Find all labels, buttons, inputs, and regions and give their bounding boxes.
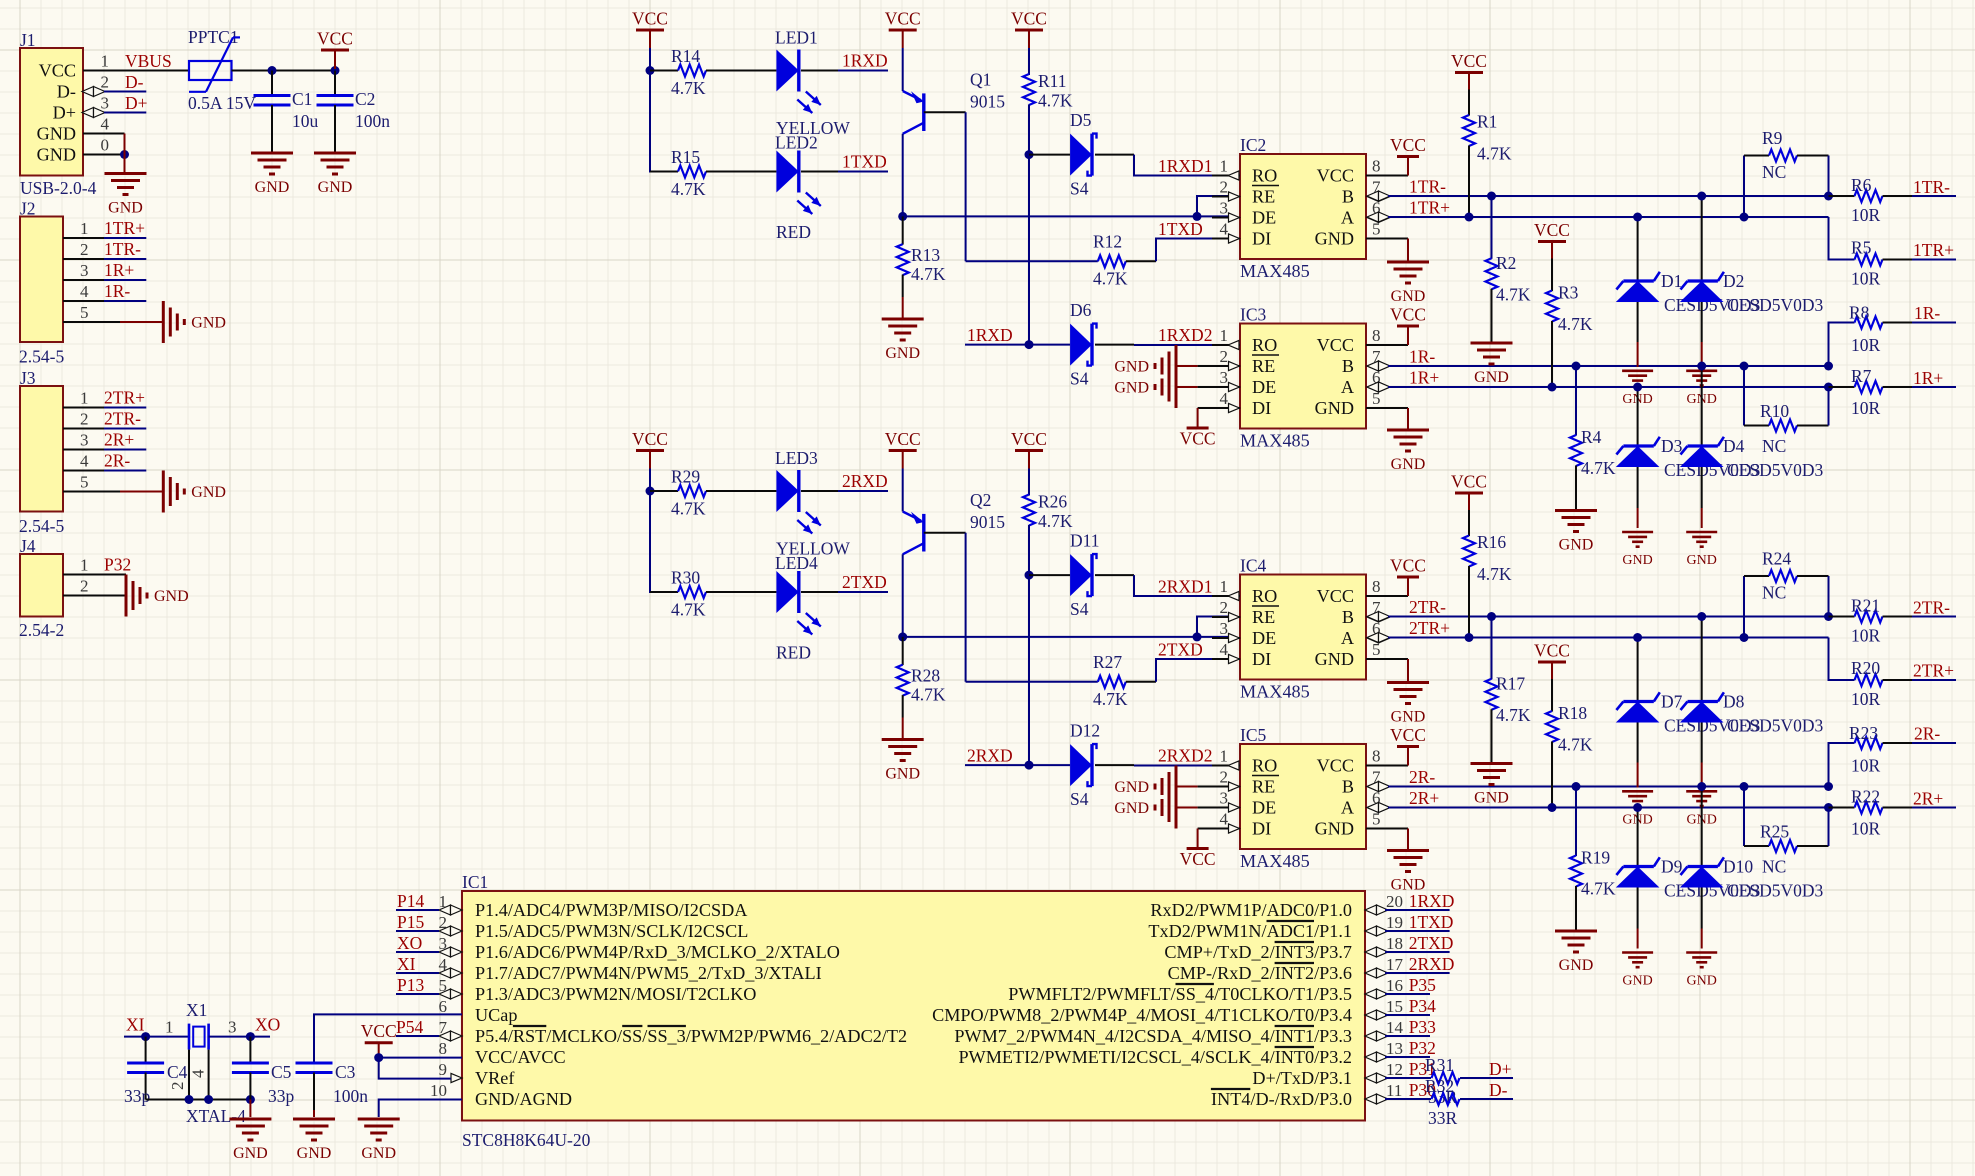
resistor R32 (33R) [1385,1076,1513,1128]
svg-text:GND: GND [191,315,226,332]
svg-text:A: A [1341,628,1354,648]
svg-text:IC2: IC2 [1240,135,1266,155]
svg-text:D12: D12 [1070,721,1100,741]
ground (D3) [1622,532,1653,568]
svg-text:R2: R2 [1496,253,1516,273]
wire J1 gnd [124,134,126,174]
wire pin P33 [1385,1035,1430,1037]
svg-text:R15: R15 [671,147,700,167]
svg-text:2: 2 [1220,598,1229,617]
svg-text:RED: RED [776,643,811,663]
svg-text:2: 2 [1220,178,1229,197]
svg-text:R16: R16 [1477,532,1506,552]
svg-text:R14: R14 [671,46,700,66]
svg-text:XI: XI [126,1015,145,1035]
svg-text:2R-: 2R- [104,451,130,471]
junction R2 [1487,192,1496,201]
TVS diode D9 [1616,808,1761,949]
svg-text:R27: R27 [1093,652,1122,672]
wire 1TR+ bus [1367,212,1829,222]
svg-text:GND: GND [154,588,189,605]
wire base [924,112,966,261]
svg-text:A: A [1341,377,1354,397]
svg-text:GND: GND [1559,537,1594,554]
TVS diode D4 [1680,366,1824,528]
svg-text:RO: RO [1252,335,1277,355]
svg-text:GND: GND [297,1145,332,1162]
svg-text:17: 17 [1386,955,1404,974]
junction R8 [1824,782,1833,791]
junction R8 [1824,362,1833,371]
svg-text:R29: R29 [671,467,700,487]
TVS diode D7 [1616,638,1761,788]
svg-text:VCC: VCC [1390,725,1426,745]
svg-text:GND: GND [108,200,143,217]
svg-text:1R+: 1R+ [1409,368,1439,388]
junction C5 [246,1032,255,1041]
svg-text:RED: RED [776,222,811,242]
svg-text:1RXD: 1RXD [842,51,888,71]
svg-text:10R: 10R [1851,335,1881,355]
diode D11 (S4) [1029,531,1100,620]
wire pin P34 [1385,1014,1430,1016]
svg-text:NC: NC [1762,162,1786,182]
junction R3 [1548,383,1557,392]
wire 2RXD [801,490,888,492]
power VCC (IC3 pin8) [1366,305,1426,346]
svg-text:VCC: VCC [1534,220,1570,240]
svg-text:GND: GND [1114,380,1149,397]
TVS diode D1 [1616,217,1761,367]
svg-text:VCC: VCC [317,29,353,49]
wire pin 1TXD [1385,930,1450,932]
svg-text:LED1: LED1 [775,28,818,48]
power VCC (mcu) [361,1021,397,1057]
svg-text:DE: DE [1252,208,1276,228]
svg-text:MAX485: MAX485 [1240,431,1310,451]
svg-text:2: 2 [1220,347,1229,366]
svg-text:GND: GND [1114,779,1149,796]
junction R1 [1465,213,1474,222]
svg-text:D9: D9 [1661,857,1683,877]
power VCC (transistor) [885,9,921,49]
svg-text:MAX485: MAX485 [1240,261,1310,281]
svg-text:4.7K: 4.7K [1558,735,1593,755]
wire VBUS [105,70,189,72]
svg-text:2TR+: 2TR+ [1409,618,1450,638]
svg-text:GND: GND [37,124,76,144]
wire vcc to resistors [650,48,678,172]
svg-text:XTAL-4: XTAL-4 [186,1106,246,1126]
svg-text:10R: 10R [1851,819,1881,839]
svg-text:R31: R31 [1425,1055,1454,1075]
svg-text:1TXD: 1TXD [1158,219,1203,239]
wire vcc to emitter [902,48,904,91]
svg-text:2: 2 [80,240,89,259]
ground (IC5 DE) [1114,787,1212,829]
svg-text:NC: NC [1762,436,1786,456]
resistor R7 (10R) [1829,366,1957,418]
svg-text:11: 11 [1386,1081,1402,1100]
svg-text:1R-: 1R- [104,281,130,301]
svg-text:2: 2 [80,410,89,429]
resistor R17 [1486,617,1531,764]
svg-text:RE: RE [1252,187,1275,207]
junction R9 left [1740,633,1749,642]
svg-text:1: 1 [1220,747,1229,766]
wire pullup down [1028,525,1030,765]
power VCC (USB) [317,29,353,70]
resistor R23 (10R) [1829,723,1957,787]
svg-text:1RXD: 1RXD [1409,891,1455,911]
resistor R29 [650,467,776,519]
svg-text:33p: 33p [124,1086,151,1106]
svg-text:R28: R28 [911,666,940,686]
resistor R26 [1023,492,1073,532]
resistor R18 [1546,679,1593,808]
wire 1R- bus [1367,361,1829,371]
junction at J1 GND [120,150,129,159]
resistor R30 [650,568,776,620]
svg-text:R10: R10 [1760,401,1789,421]
wire 2RXD mid [965,764,1070,766]
svg-text:GND: GND [885,766,920,783]
svg-text:2: 2 [168,1082,187,1091]
resistor R24 (NC) [1744,549,1829,638]
svg-text:VCC: VCC [1390,556,1426,576]
junction D5 [1025,150,1034,159]
ground (R4) [1555,931,1597,974]
svg-text:P1.4/ADC4/PWM3P/MISO/I2CSDA: P1.4/ADC4/PWM3P/MISO/I2CSDA [475,900,747,920]
svg-text:15: 15 [1386,997,1403,1016]
svg-text:D1: D1 [1661,271,1682,291]
svg-text:1: 1 [80,219,89,238]
svg-text:PWMETI2/PWMETI/I2CSCL_4/SCLK_4: PWMETI2/PWMETI/I2CSCL_4/SCLK_4/INT0/P3.2 [958,1047,1352,1067]
svg-text:LED2: LED2 [775,133,818,153]
svg-text:4.7K: 4.7K [1581,879,1616,899]
svg-text:C3: C3 [335,1062,356,1082]
svg-text:R5: R5 [1851,238,1872,258]
wire XO [209,1036,270,1038]
svg-text:4.7K: 4.7K [911,685,946,705]
svg-text:20: 20 [1386,892,1403,911]
resistor R31 (33R) [1385,1055,1513,1107]
svg-text:VCC: VCC [632,429,668,449]
svg-text:0.5A 15V: 0.5A 15V [188,93,256,113]
junction R[R29] [646,487,655,496]
svg-text:VRef: VRef [475,1068,515,1088]
resistor R2 [1486,196,1531,343]
svg-text:R22: R22 [1851,787,1880,807]
resistor R5 (10R) [1829,217,1957,289]
wire 2TR+ bus [1367,633,1829,643]
svg-text:GND: GND [191,484,226,501]
svg-text:CESD5V0D3: CESD5V0D3 [1727,295,1824,315]
junction R4 [1572,782,1581,791]
svg-text:GND: GND [1391,288,1426,305]
resistor R4 [1570,366,1616,511]
svg-text:GND: GND [1474,369,1509,386]
junction D5 [1025,571,1034,580]
resistor R10 (NC) [1744,366,1829,456]
resistor R22 (10R) [1829,787,1957,839]
resistor R12 [966,232,1156,289]
svg-text:PPTC1: PPTC1 [188,27,239,47]
svg-text:R32: R32 [1425,1076,1454,1096]
svg-text:P32: P32 [104,555,131,575]
power VCC (IC5 DI) [1180,829,1216,870]
wire 2R+ bus [1367,803,1829,813]
resistor R19 [1570,787,1616,932]
wire RE/DE net [903,215,1229,217]
svg-text:MAX485: MAX485 [1240,851,1310,871]
svg-text:R20: R20 [1851,658,1880,678]
junction R10 right [1824,803,1833,812]
svg-text:GND: GND [1114,800,1149,817]
svg-text:D4: D4 [1723,436,1745,456]
svg-text:10R: 10R [1851,626,1881,646]
svg-text:2TXD: 2TXD [1158,640,1203,660]
svg-text:GND/AGND: GND/AGND [475,1089,572,1109]
svg-text:VCC: VCC [1011,429,1047,449]
svg-text:4.7K: 4.7K [1093,689,1128,709]
wire 1R+ bus [1367,382,1829,392]
junction D4 [1697,362,1706,371]
svg-text:1: 1 [101,52,110,71]
svg-text:2TR-: 2TR- [1913,598,1950,618]
svg-text:3: 3 [1220,789,1229,808]
MAX485 IC2 [1212,135,1408,281]
wire rail to ground [249,1100,251,1118]
svg-text:P33: P33 [1409,1017,1436,1037]
wire pin P13 [396,993,439,995]
svg-text:CMP-/RxD_2/INT2/P3.6: CMP-/RxD_2/INT2/P3.6 [1168,963,1352,983]
MAX485 IC4 [1212,556,1408,702]
svg-text:1R-: 1R- [1914,303,1940,323]
svg-text:D+: D+ [1489,1059,1512,1079]
svg-text:2R+: 2R+ [1409,788,1439,808]
svg-text:DE: DE [1252,798,1276,818]
capacitor C1 [254,71,319,154]
resistor R1 [1463,90,1512,218]
power VCC (IC3 DI) [1180,408,1216,449]
svg-text:VCC: VCC [885,429,921,449]
svg-text:4: 4 [1220,810,1229,829]
resistor R3 [1546,259,1593,388]
wire pullup down [1028,105,1030,345]
svg-text:S4: S4 [1070,789,1089,809]
junction rail C5 [246,1095,255,1104]
svg-text:GND: GND [1474,790,1509,807]
junction R9 left [1740,213,1749,222]
resistor R6 (10R) [1829,175,1957,225]
diode D6 (S4) [1070,300,1097,389]
svg-text:1TR-: 1TR- [104,239,141,259]
svg-text:A: A [1341,208,1354,228]
ground (R2) [1471,343,1513,386]
svg-text:1RXD1: 1RXD1 [1158,156,1212,176]
svg-text:GND: GND [255,179,290,196]
svg-text:P34: P34 [1409,996,1436,1016]
svg-text:C5: C5 [271,1062,292,1082]
transistor Q1 (9015) [903,70,1006,134]
svg-text:GND: GND [318,179,353,196]
wire pin P35 [1385,993,1430,995]
svg-text:S4: S4 [1070,369,1089,389]
svg-text:1R+: 1R+ [104,260,134,280]
svg-text:1: 1 [80,556,89,575]
ground (mcu) [358,1119,400,1162]
svg-text:3: 3 [1220,619,1229,638]
svg-text:Q2: Q2 [970,490,991,510]
junction collector [898,632,907,641]
svg-text:DI: DI [1252,819,1271,839]
svg-text:GND: GND [1315,819,1354,839]
svg-text:2RXD: 2RXD [967,746,1013,766]
svg-text:2RXD: 2RXD [842,471,888,491]
svg-text:R30: R30 [671,568,700,588]
svg-text:GND: GND [1622,974,1652,989]
svg-text:IC4: IC4 [1240,556,1267,576]
svg-text:D-: D- [57,82,76,102]
svg-text:X1: X1 [186,1000,207,1020]
wire 2TXD [801,591,888,593]
svg-text:C1: C1 [292,89,312,109]
power VCC (pullup) [1011,9,1047,49]
svg-text:1TR-: 1TR- [1913,177,1950,197]
svg-text:TxD2/PWM1N/ADC1/P1.1: TxD2/PWM1N/ADC1/P1.1 [1148,921,1352,941]
svg-text:GND: GND [1315,398,1354,418]
connector J4 (2.54-2) [19,536,126,640]
svg-text:10u: 10u [292,111,319,131]
ground (R4) [1555,511,1597,554]
svg-text:2.54-2: 2.54-2 [19,620,64,640]
svg-text:R19: R19 [1581,848,1610,868]
svg-text:12: 12 [1386,1060,1403,1079]
svg-text:VCC: VCC [39,61,76,81]
svg-text:1R-: 1R- [1409,347,1435,367]
diode D12 (S4) [1070,721,1100,810]
svg-text:UCap: UCap [475,1005,517,1025]
svg-text:10R: 10R [1851,689,1881,709]
svg-text:33p: 33p [268,1086,295,1106]
ground (C2) [314,153,356,196]
svg-text:D+/TxD/P3.1: D+/TxD/P3.1 [1252,1068,1352,1088]
junction R9 right [1824,192,1833,201]
junction D6 [1025,761,1034,770]
svg-text:4.7K: 4.7K [1581,458,1616,478]
svg-text:R21: R21 [1851,596,1880,616]
wire RE branch [1197,196,1229,216]
svg-text:S4: S4 [1070,599,1089,619]
power VCC (led resistors) [632,429,668,469]
svg-text:RO: RO [1252,756,1277,776]
svg-text:GND: GND [1687,974,1717,989]
svg-text:GND: GND [1687,553,1717,568]
svg-text:10R: 10R [1851,269,1881,289]
junction xtal pin4 [204,1095,213,1104]
svg-text:1TR+: 1TR+ [1409,198,1450,218]
svg-text:D11: D11 [1070,531,1100,551]
junction R[R14] [646,66,655,75]
wire pin XI [396,972,439,974]
svg-text:19: 19 [1386,913,1403,932]
svg-text:100n: 100n [355,111,390,131]
svg-text:USB-2.0-4: USB-2.0-4 [20,178,97,198]
TVS diode D10 [1680,787,1824,949]
junction D1 [1633,633,1642,642]
svg-text:R24: R24 [1762,549,1791,569]
power VCC (R3) [1534,641,1570,680]
svg-text:B: B [1342,356,1354,376]
power VCC (R1) [1451,472,1487,511]
svg-text:DI: DI [1252,398,1271,418]
svg-text:R8: R8 [1849,303,1870,323]
svg-text:GND: GND [1622,553,1652,568]
svg-text:1TXD: 1TXD [1409,912,1454,932]
junction R10 left [1740,782,1749,791]
junction D3 [1633,803,1642,812]
svg-text:2R-: 2R- [1914,724,1940,744]
svg-text:8: 8 [1372,157,1381,176]
power VCC (pullup) [1011,429,1047,469]
junction C4 [141,1032,150,1041]
svg-text:R9: R9 [1762,128,1783,148]
ground (D4) [1686,532,1717,568]
ground (C1) [251,153,293,196]
svg-text:18: 18 [1386,934,1403,953]
svg-text:P54: P54 [396,1017,423,1037]
power VCC (R3) [1534,220,1570,259]
diode D5 (S4) [1029,110,1097,199]
LED LED3 (yellow) [775,448,850,559]
ground (IC5 pin5) [1366,829,1429,894]
junction D2 [1697,612,1706,621]
svg-text:B: B [1342,777,1354,797]
svg-text:10: 10 [430,1081,447,1100]
resistor R16 [1463,510,1512,638]
ground (J4) [126,575,189,617]
svg-text:GND: GND [37,145,76,165]
wire pin P15 [396,930,439,932]
resistor R15 [650,147,776,199]
junction D6 [1025,340,1034,349]
svg-text:8: 8 [1372,577,1381,596]
svg-text:4.7K: 4.7K [1496,705,1531,725]
svg-text:10R: 10R [1851,756,1881,776]
svg-text:XI: XI [397,954,416,974]
ground (IC3 pin5) [1366,408,1429,473]
wire 2R- bus [1367,782,1829,792]
svg-text:GND: GND [1315,649,1354,669]
svg-text:D8: D8 [1723,692,1745,712]
wire D- stub [104,91,146,93]
wire XI [124,1036,189,1038]
svg-text:5: 5 [1372,640,1381,659]
svg-text:4: 4 [101,115,110,134]
crystal X1 (XTAL-4) [165,1000,246,1126]
svg-text:4.7K: 4.7K [1093,269,1128,289]
svg-text:2TR+: 2TR+ [104,388,145,408]
svg-text:4.7K: 4.7K [1477,144,1512,164]
power VCC (led resistors) [632,9,668,49]
junction D2 [1697,192,1706,201]
wire 2RXD2 [1095,764,1228,766]
svg-text:P1.6/ADC6/PWM4P/RxD_3/MCLKO_2/: P1.6/ADC6/PWM4P/RxD_3/MCLKO_2/XTALO [475,942,840,962]
svg-text:PWMFLT2/PWMFLT/SS_4/T0CLKO/T1/: PWMFLT2/PWMFLT/SS_4/T0CLKO/T1/P3.5 [1008,984,1352,1004]
svg-text:LED4: LED4 [775,553,818,573]
svg-text:4.7K: 4.7K [671,600,706,620]
